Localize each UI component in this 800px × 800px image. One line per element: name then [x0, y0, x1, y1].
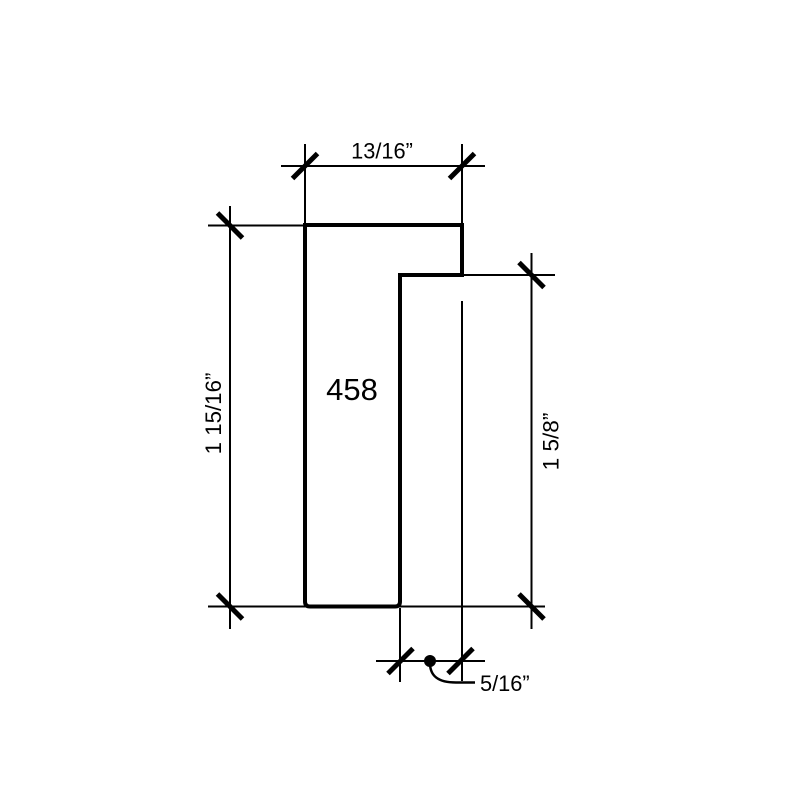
svg-text:5/16”: 5/16” — [480, 671, 530, 696]
svg-text:13/16”: 13/16” — [351, 139, 413, 164]
svg-text:1 5/8”: 1 5/8” — [539, 413, 564, 471]
svg-text:458: 458 — [326, 372, 378, 407]
svg-text:1 15/16”: 1 15/16” — [201, 373, 226, 455]
